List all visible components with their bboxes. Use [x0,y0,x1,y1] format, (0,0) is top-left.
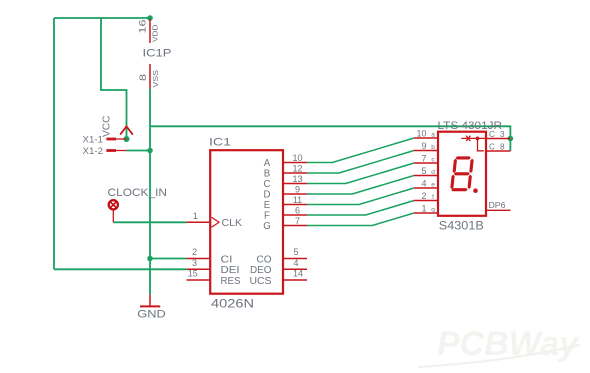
svg-text:VCC: VCC [102,116,113,138]
svg-text:f: f [432,194,434,201]
svg-text:1: 1 [421,204,426,214]
wire X1-2 to GND net [126,150,150,152]
wire common cathode net [150,126,510,151]
display pin d 5 [414,166,437,176]
svg-text:9: 9 [421,141,426,151]
segment b [469,159,474,173]
power symbol IC1P [138,19,172,89]
segment c [467,175,472,189]
svg-text:10: 10 [292,153,302,163]
svg-text:8: 8 [138,74,148,81]
display pin c 7 [414,154,437,164]
svg-text:CI: CI [221,254,233,265]
decimal point [473,188,478,193]
svg-text:3: 3 [192,258,197,268]
display pin f 2 [414,191,437,201]
junction VCC X1-1 [124,136,130,142]
segment d [451,188,468,191]
display pin e 4 [414,179,437,189]
svg-text:11: 11 [293,195,302,205]
svg-text:4: 4 [293,258,298,268]
svg-text:2: 2 [192,247,197,257]
svg-text:CO: CO [257,254,272,265]
svg-text:GND: GND [137,309,166,321]
svg-text:14: 14 [293,269,303,279]
svg-text:C: C [489,143,495,152]
svg-text:RES: RES [221,276,242,287]
svg-text:1: 1 [193,211,198,221]
wire segment B [307,151,414,174]
svg-text:IC1: IC1 [209,137,231,149]
segment e [450,175,455,189]
svg-text:B: B [264,168,270,179]
pin C 13 [264,174,308,190]
svg-text:d: d [431,169,435,176]
svg-text:CLK: CLK [222,218,243,229]
CLOCK_IN flag [108,187,168,223]
wire segment A [307,138,414,163]
svg-text:12: 12 [292,164,302,174]
svg-text:VDD: VDD [151,24,160,42]
wire CLOCK_IN to CLK [113,221,186,223]
ground symbol GND [137,295,166,321]
svg-text:9: 9 [295,185,300,195]
svg-text:6: 6 [295,206,300,216]
svg-text:b: b [431,144,435,151]
svg-text:2: 2 [421,191,426,201]
svg-text:F: F [264,210,270,221]
svg-text:10: 10 [416,129,426,139]
segment f [452,159,457,173]
segment a [455,156,471,159]
connector pin X1-2 [83,146,127,156]
wire GND net branch to CI [150,258,187,260]
svg-text:DEI: DEI [221,265,240,276]
pin DEI 3 [187,258,240,276]
VCC supply symbol [102,116,133,138]
svg-text:e: e [431,182,435,189]
pin VDD 16 [149,19,151,43]
junction VDD [147,15,153,21]
svg-text:A: A [264,158,271,169]
svg-text:IC1P: IC1P [143,48,172,60]
junction display common [508,136,514,142]
pin UCS 14 [250,269,308,287]
display pin g 1 [414,204,437,214]
wire GND net vertical from VSS [149,89,151,295]
display pin DP 6 [487,201,511,210]
pin E 11 [264,195,307,211]
pin CI 2 [187,247,233,265]
svg-text:X1-2: X1-2 [83,146,104,156]
svg-text:E: E [264,200,271,211]
pin D 9 [264,185,308,201]
svg-text:7: 7 [295,216,300,226]
svg-text:13: 13 [292,174,302,184]
wire segment E [307,188,414,205]
junction X1-2 [147,148,153,154]
svg-text:a: a [431,132,435,139]
svg-text:DEO: DEO [250,265,272,276]
op IC1 4026N box [209,137,283,311]
wire VCC branch to VCC symbol [101,18,127,139]
svg-text:8: 8 [500,143,505,152]
svg-text:3: 3 [500,130,505,139]
svg-text:5: 5 [421,166,426,176]
wire segment F [307,201,414,216]
wire segment C [307,163,414,184]
svg-text:C: C [264,179,271,190]
display pin C 3 [487,130,510,139]
svg-text:VSS: VSS [151,70,160,88]
pin RES 15 [187,269,242,287]
svg-text:4026N: 4026N [211,299,254,311]
svg-text:C: C [489,130,495,139]
svg-text:UCS: UCS [250,276,273,287]
watermark PCBWay [418,325,580,367]
junction CI branch [147,256,153,262]
svg-text:DP6: DP6 [489,201,506,210]
7-segment digit [450,156,474,191]
display pin a 10 [414,129,437,139]
svg-text:7: 7 [421,154,426,164]
segment g [454,172,470,175]
display pin C 8 [487,143,510,152]
wire segment D [307,176,414,195]
display U$1 S4301B box [438,120,503,233]
pin F 6 [264,206,307,222]
svg-text:G: G [263,221,271,232]
pin B 12 [264,164,307,180]
pin CO 5 [257,247,308,265]
wire VCC net top horizontal [54,17,150,19]
wire segment G [307,213,414,226]
pin A 10 [264,153,307,169]
svg-text:4: 4 [421,179,426,189]
svg-text:X1-1: X1-1 [83,134,104,144]
display common diode symbol [461,136,485,151]
svg-text:16: 16 [138,20,148,34]
pin G 7 [263,216,307,232]
pin CLK 1 [187,211,243,229]
svg-text:CLOCK_IN: CLOCK_IN [108,187,168,199]
pin DEO 4 [250,258,307,276]
svg-text:5: 5 [293,247,298,257]
svg-text:D: D [264,189,271,200]
pin VSS 8 [149,64,151,89]
svg-text:15: 15 [188,269,198,279]
display pin b 9 [414,141,437,151]
connector pin X1-1 [83,134,127,144]
wire VCC net left vertical [53,18,55,269]
wire VCC net bottom horizontal to DEI [54,268,187,270]
svg-text:S4301B: S4301B [439,221,484,233]
svg-text:g: g [431,207,435,214]
